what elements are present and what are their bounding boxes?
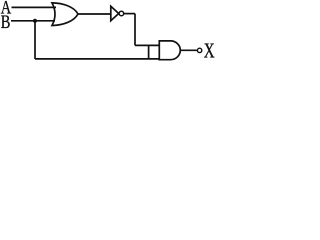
wire AND output [180, 49, 197, 51]
wire A input [12, 6, 57, 8]
node A label [1, 0, 12, 18]
wire to AND upper input [135, 44, 160, 46]
wire OR to inverter [78, 13, 111, 15]
wire B vertical drop [34, 21, 36, 59]
wire B input [11, 20, 55, 22]
wire bottom horizontal [35, 58, 160, 60]
node B label [1, 11, 11, 32]
and-gate G3 [159, 41, 180, 60]
svg-text:X: X [204, 39, 215, 62]
svg-text:B: B [1, 11, 11, 32]
or-gate G1 [52, 3, 78, 26]
node X label [204, 39, 215, 62]
wire vertical down from inverter [134, 14, 136, 46]
wire connector vertical [148, 45, 150, 59]
inverter G2 triangle [111, 6, 119, 21]
wire inverter output [124, 13, 135, 15]
output terminal bubble [197, 48, 201, 52]
inverter G2 bubble [119, 11, 124, 16]
junction dot on B [33, 19, 37, 23]
